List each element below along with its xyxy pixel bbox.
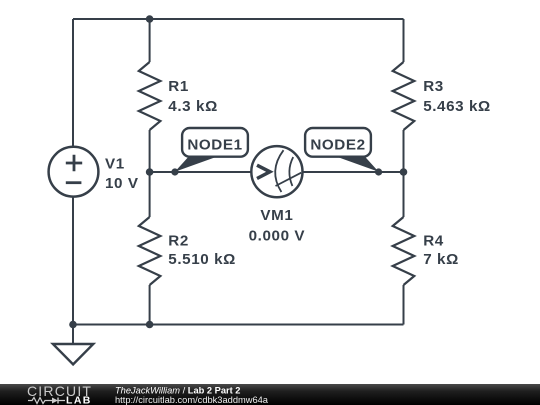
svg-text:R3: R3 <box>423 78 444 95</box>
voltmeter VM1 <box>249 146 306 244</box>
wire top bus <box>73 18 404 20</box>
wire node row left (NODE1 wire) <box>150 171 252 173</box>
node NODE1 flag <box>171 128 248 176</box>
resistor R2 <box>139 217 236 285</box>
wire left lower (source bottom lead) <box>72 197 74 325</box>
footer bar <box>0 384 540 405</box>
svg-text:R2: R2 <box>168 233 189 250</box>
svg-text:7 kΩ: 7 kΩ <box>423 251 459 268</box>
wire R3 bottom lead <box>403 130 405 172</box>
voltage source V1 <box>49 147 139 197</box>
wire left upper (source top lead) <box>72 19 74 147</box>
junction dot bottom (R2 bottom) <box>146 321 154 329</box>
svg-text:LAB: LAB <box>66 395 92 405</box>
ground symbol <box>53 344 93 364</box>
junction dot node row right <box>400 168 408 176</box>
wire R2 top lead <box>149 172 151 217</box>
svg-text:NODE2: NODE2 <box>310 137 365 154</box>
wire R4 bottom lead <box>403 285 405 325</box>
svg-text:V1: V1 <box>105 155 125 172</box>
svg-text:R4: R4 <box>423 233 444 250</box>
wire R1 top lead <box>149 19 151 62</box>
wire R1 bottom lead <box>149 130 151 172</box>
resistor R1 <box>139 62 218 130</box>
svg-text:5.510 kΩ: 5.510 kΩ <box>168 251 236 268</box>
svg-text:10 V: 10 V <box>105 175 139 192</box>
resistor R3 <box>393 62 491 130</box>
wire node row right (NODE2 wire) <box>302 171 403 173</box>
wire R3 top lead <box>403 19 405 62</box>
junction dot bottom left (ground) <box>69 321 77 329</box>
svg-text:0.000 V: 0.000 V <box>249 227 306 244</box>
CircuitLab logo <box>27 383 92 405</box>
svg-text:R1: R1 <box>168 78 189 95</box>
wire bottom bus <box>73 324 404 326</box>
node NODE2 flag <box>305 128 382 176</box>
wire R2 bottom lead <box>149 285 151 325</box>
svg-text:NODE1: NODE1 <box>187 137 242 154</box>
junction dot node row left <box>146 168 154 176</box>
wire R4 top lead <box>403 172 405 217</box>
svg-text:5.463 kΩ: 5.463 kΩ <box>423 98 491 115</box>
junction dot top (R1 top) <box>146 15 154 23</box>
wire ground lead <box>72 325 74 345</box>
svg-text:http://circuitlab.com/cdbk3add: http://circuitlab.com/cdbk3addmw64a <box>115 395 269 405</box>
svg-text:VM1: VM1 <box>260 207 293 224</box>
resistor R4 <box>393 217 459 285</box>
svg-text:4.3 kΩ: 4.3 kΩ <box>168 98 218 115</box>
